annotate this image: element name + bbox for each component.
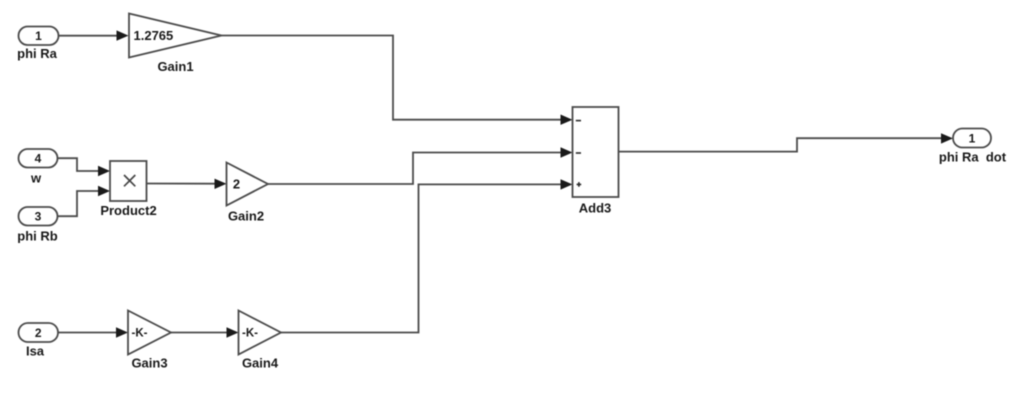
wire port3 to Product2 input2 <box>58 191 100 216</box>
wire Add3 to outport <box>619 138 943 151</box>
svg-text:Product2: Product2 <box>100 203 156 218</box>
wire port1 to Gain1 <box>59 35 119 37</box>
svg-text:Gain1: Gain1 <box>157 59 193 74</box>
arrowhead into Add3 input2 <box>561 147 573 157</box>
arrowhead into Gain4 <box>227 327 239 337</box>
arrowhead into Gain2 <box>215 179 227 189</box>
wire Gain4 to Add3 input3 <box>281 184 561 332</box>
wire Product2 to Gain2 <box>147 183 216 185</box>
svg-text:1.2765: 1.2765 <box>134 28 174 43</box>
svg-text:1: 1 <box>35 29 42 43</box>
gain Gain2 <box>227 163 269 206</box>
svg-text:2: 2 <box>35 326 42 340</box>
arrowhead into Gain1 <box>117 30 129 40</box>
svg-text:w: w <box>30 171 42 186</box>
svg-text:Isa: Isa <box>26 344 45 359</box>
svg-text:phi Ra: phi Ra <box>17 46 57 61</box>
svg-text:Gain3: Gain3 <box>131 356 167 371</box>
svg-text:Add3: Add3 <box>579 201 612 216</box>
svg-text:-K-: -K- <box>242 327 258 339</box>
gain Gain3 <box>128 311 171 355</box>
gain Gain4 <box>239 311 282 355</box>
outport 1 phi Ra dot <box>953 129 991 148</box>
wire port4 to Product2 input1 <box>58 158 100 171</box>
inport 4 w <box>19 149 58 168</box>
inport 1 phi Ra <box>19 27 59 46</box>
arrowhead into Gain3 <box>116 327 128 337</box>
svg-text:Gain4: Gain4 <box>242 356 279 371</box>
svg-text:Gain2: Gain2 <box>228 209 264 224</box>
svg-text:1: 1 <box>969 132 976 146</box>
inport 2 Isa <box>19 323 59 342</box>
wire Gain2 to Add3 input2 <box>268 153 561 185</box>
wire Gain3 to Gain4 <box>171 332 227 334</box>
arrowhead into Product2 input2 <box>98 186 110 196</box>
svg-text:phi Rb: phi Rb <box>17 229 57 244</box>
arrowhead into Add3 input1 <box>561 115 573 125</box>
inport 3 phi Rb <box>19 207 58 226</box>
arrowhead into Product2 input1 <box>98 166 110 176</box>
svg-text:phi Ra dot: phi Ra dot <box>939 150 1007 165</box>
arrowhead into Add3 input3 <box>561 179 573 189</box>
arrowhead into outport <box>941 133 953 143</box>
svg-text:4: 4 <box>35 152 42 166</box>
sum Add3 <box>573 107 619 197</box>
svg-text:3: 3 <box>35 210 42 224</box>
gain Gain1 <box>129 14 222 58</box>
product Product2 <box>110 161 147 201</box>
svg-text:-K-: -K- <box>132 327 148 339</box>
wire port2 to Gain3 <box>58 332 117 334</box>
svg-text:2: 2 <box>233 177 240 192</box>
wire Gain1 to Add3 input1 <box>222 36 561 120</box>
